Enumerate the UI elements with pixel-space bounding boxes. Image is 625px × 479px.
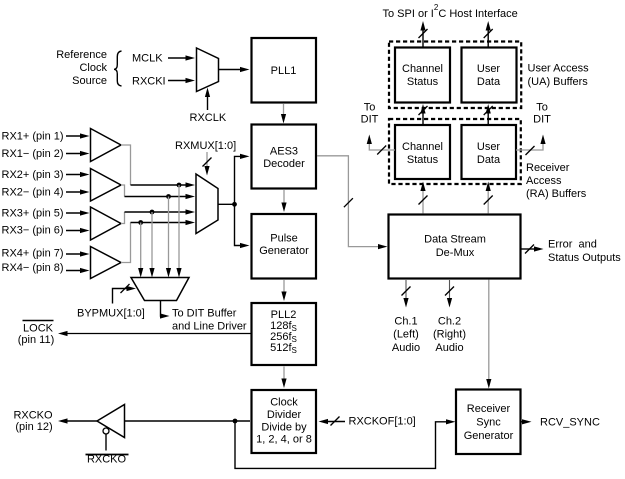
svg-text:Status: Status [407,76,439,88]
wire UA channel status to host interface [419,21,428,47]
wire RX3+ input [66,210,90,215]
svg-text:Error and: Error and [548,239,597,251]
wire Ch1 audio output [402,280,411,308]
svg-text:To DIT Buffer: To DIT Buffer [172,308,237,320]
svg-text:RX3− (pin 6): RX3− (pin 6) [2,225,64,237]
svg-text:RX1− (pin 2): RX1− (pin 2) [2,148,64,160]
wire demux to receiver sync generator [486,280,491,389]
svg-text:RXCLK: RXCLK [190,112,227,124]
PLL1 box [252,38,317,103]
svg-text:(Left): (Left) [393,329,419,341]
svg-text:RX1+ (pin 1): RX1+ (pin 1) [2,131,64,143]
wire RXCKI to clock mux [168,78,195,83]
wire RA channel status to DIT left [367,135,395,155]
wire A1 output elbow [121,145,131,185]
svg-text:(RA) Buffers: (RA) Buffers [526,188,587,200]
svg-text:(pin 11): (pin 11) [18,334,54,346]
svg-text:Audio: Audio [435,342,463,354]
label RXCKO pin 12 [13,410,53,434]
wire A3 output elbow [121,212,125,224]
svg-text:BYPMUX[1:0]: BYPMUX[1:0] [77,308,145,320]
wire RXCLK select into clock mux [205,88,210,111]
brace for reference clock source [114,51,122,86]
wire Ch2 audio output [445,280,454,308]
wire RX1- input [66,151,90,156]
svg-text:DIT: DIT [361,114,379,126]
wire RX1+ input [66,133,90,138]
PLL2 box [252,303,317,365]
wire A2 output elbow [121,185,125,197]
svg-text:(UA) Buffers: (UA) Buffers [528,76,589,88]
svg-text:Decoder: Decoder [263,158,305,170]
overline for LOCK [23,320,54,322]
wire A1 to RXMUX input 1 [131,182,196,187]
node N2 [233,419,238,424]
wire AES3 decoder to pulse generator [281,190,286,212]
svg-text:Data: Data [477,76,501,88]
svg-text:Ch.1: Ch.1 [394,316,417,328]
data stream demux box [389,215,521,279]
svg-text:RXMUX[1:0]: RXMUX[1:0] [175,140,236,152]
node tap1 [177,183,182,188]
wire BYPMUX select [113,284,137,304]
svg-text:LOCK: LOCK [23,323,54,335]
svg-text:RX3+ (pin 5): RX3+ (pin 5) [2,208,64,220]
wire node N2 to receiver sync generator [235,419,456,468]
svg-text:To: To [536,102,548,114]
wire RX2- input [66,189,90,194]
wire RXMUX select [203,152,212,176]
svg-text:1, 2, 4, or 8: 1, 2, 4, or 8 [256,434,312,446]
wire RX4+ input [66,251,90,256]
wire node N1 to AES3 decoder input [235,154,250,205]
svg-text:RXCKOF[1:0]: RXCKOF[1:0] [349,416,416,428]
wire RXCKOF control into clock divider [319,417,346,426]
RXMUX mux [196,174,218,234]
bypass mux BYPMUX [131,278,189,301]
clock divider box [252,390,317,453]
label User Access UA Buffers [528,63,590,89]
label Error and Status Outputs [548,239,621,265]
svg-text:RX4− (pin 8): RX4− (pin 8) [2,262,64,274]
wire error and status outputs [521,245,544,254]
svg-text:RXCKI: RXCKI [132,76,166,88]
label Receiver Access RA Buffers [526,162,587,200]
wire tap2 down to bypass mux [166,197,171,278]
wire RXCKO enable [105,434,107,451]
label Ch2 Right Audio [433,316,466,355]
label Ch1 Left Audio [392,316,420,355]
pulse generator box [252,214,317,279]
svg-text:Status: Status [407,154,439,166]
svg-text:Divider: Divider [267,409,302,421]
node tap3 [150,210,155,215]
wire PLL2 to clock divider [281,367,286,389]
svg-text:Audio: Audio [392,342,420,354]
RA channel status box [395,125,450,179]
svg-text:PLL1: PLL1 [271,65,297,77]
wire clock divider to tri-state buffer [125,420,251,422]
RA user data box [462,125,517,179]
svg-text:User Access: User Access [528,63,590,75]
svg-text:Status Outputs: Status Outputs [548,252,621,264]
svg-text:To: To [364,102,376,114]
svg-text:Reference: Reference [56,49,107,61]
svg-text:RX2− (pin 4): RX2− (pin 4) [2,187,64,199]
wire PLL1 to AES3 decoder [281,104,286,124]
node N1 [232,202,237,207]
svg-text:Data Stream: Data Stream [424,234,486,246]
wire A2 to RXMUX input 2 [125,194,196,199]
svg-text:RXCKO: RXCKO [13,410,53,422]
svg-text:Generator: Generator [259,245,309,257]
receiver amplifier A1 [91,129,122,162]
svg-text:Receiver: Receiver [526,162,570,174]
svg-text:Divide by: Divide by [261,422,307,434]
svg-text:Generator: Generator [464,430,514,442]
label To DIT left [361,102,379,126]
wire BYPMUX output to DIT buffer [160,301,170,319]
svg-text:Clock: Clock [79,62,107,74]
receiver amplifier A3 [91,207,122,240]
svg-text:Receiver: Receiver [467,403,511,415]
wire node N1 to pulse generator input [235,204,250,248]
svg-text:De-Mux: De-Mux [436,247,475,259]
label Reference Clock Source [56,49,107,87]
wire MCLK to clock mux [168,55,195,60]
RA buffers dashed box [389,119,521,184]
svg-text:DIT: DIT [533,114,551,126]
AES3 decoder box U-AES3 [252,125,317,189]
UA channel status box [395,48,450,103]
node tap2 [166,194,171,199]
wire UA user data to host interface [484,21,493,47]
svg-text:User: User [477,141,501,153]
wire AES3 decoder to demux [317,156,388,249]
svg-text:Channel: Channel [402,141,443,153]
svg-text:Ch.2: Ch.2 [438,316,461,328]
wire demux to RA user data [484,182,493,214]
svg-text:Pulse: Pulse [270,233,298,245]
wire A3 to RXMUX input 3 [125,209,196,214]
receiver amplifier A2 [91,169,122,202]
svg-text:Clock: Clock [270,397,298,409]
wire RA user data to DIT right [516,135,546,156]
svg-text:(pin 12): (pin 12) [15,421,52,433]
svg-text:and Line Driver: and Line Driver [172,321,247,333]
node tap4 [138,220,143,225]
wire demux to RA channel status [419,182,428,214]
wire A4 output elbow [121,223,131,263]
UA user data box [462,48,517,103]
svg-text:Access: Access [526,175,562,187]
svg-text:AES3: AES3 [270,146,298,158]
wire RCV_SYNC output [522,419,532,424]
label To DIT Buffer and Line Driver [172,308,247,333]
wire tap1 down to bypass mux [176,185,181,278]
svg-text:User: User [477,63,501,75]
wire RA user data to UA user data [484,104,493,125]
svg-text:MCLK: MCLK [132,53,163,65]
svg-text:RCV_SYNC: RCV_SYNC [540,417,600,429]
wire clock mux output to PLL1 [219,67,250,72]
svg-text:Sync: Sync [476,417,501,429]
receiver amplifier A4 [91,247,122,279]
wire RXMUX output to node N1 [218,203,235,205]
clock source mux [197,48,219,92]
wire tap3 down to bypass mux [149,212,154,278]
wire RX2+ input [66,172,90,177]
tri-state buffer RXCKO driver [97,405,125,438]
wire A4 to RXMUX input 4 [131,220,196,225]
svg-text:Data: Data [477,154,501,166]
enable bubble on tri-state buffer [103,428,109,434]
svg-text:Source: Source [72,75,107,87]
overline for RXCKO enable [86,454,129,456]
receiver sync generator box [456,390,521,455]
wire RX4- input [66,268,90,273]
wire LOCK output from PLL2 [58,331,251,336]
svg-text:RX4+ (pin 7): RX4+ (pin 7) [2,248,64,260]
svg-text:Channel: Channel [402,63,443,75]
wire pulse generator to PLL2 [281,280,286,301]
svg-text:(Right): (Right) [433,329,466,341]
UA buffers dashed box [389,42,521,109]
wire RA channel status to UA channel status [419,104,428,125]
wire RX3- input [66,228,90,233]
wire tap4 down to bypass mux [138,223,143,278]
wire RXCKO output [58,418,97,423]
svg-text:RX2+ (pin 3): RX2+ (pin 3) [2,169,64,181]
label LOCK pin 11 [18,323,54,347]
label To DIT right [533,102,551,126]
